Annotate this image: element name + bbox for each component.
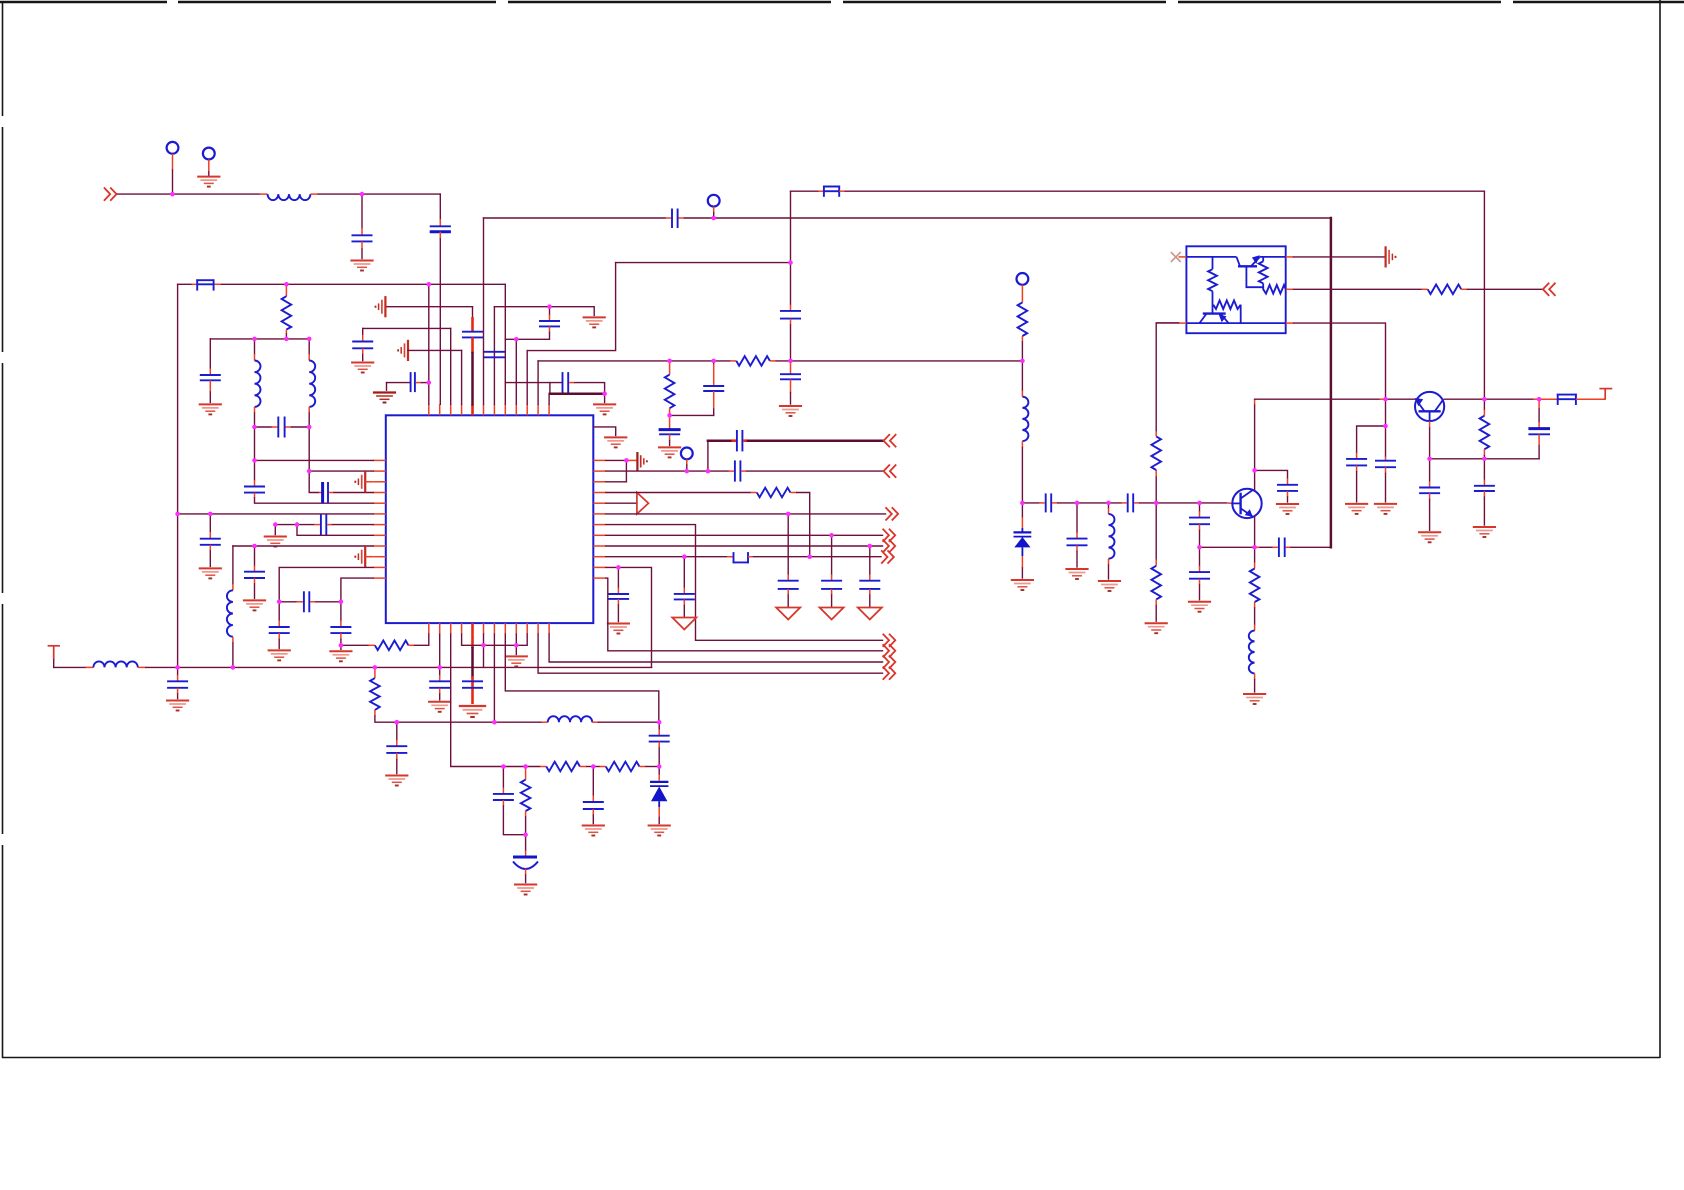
- wire: y=645.3 resistor row to pin1 bottom: [341, 644, 369, 646]
- wire: x=1156.2 upper chain to box: [1155, 476, 1157, 503]
- off-page chevron line3: [883, 655, 896, 668]
- capacitor C25 series at y=382.6: [562, 372, 564, 394]
- wire: bus y=667.4: [138, 666, 146, 668]
- wire: pin9 vertical to ground: [515, 634, 517, 654]
- wire: pin L6 line y=513.9: [178, 513, 374, 515]
- node: y218/J3: [711, 216, 716, 221]
- node: y399/x1385: [1383, 397, 1388, 402]
- U2 internals: resistor Rc vertical left: [1212, 257, 1214, 269]
- wire: y=382.6 line pin8 to gnd chain: [505, 382, 561, 384]
- wire: pin R1 to analog ground: [606, 459, 627, 461]
- U2 internals: resistor Ra vertical: [1259, 261, 1268, 283]
- jumper J5 on y=556.7: [727, 556, 733, 558]
- wire: y=360.9 supply rail: [538, 360, 730, 362]
- off-page chevron input y=471.1: [884, 465, 897, 478]
- ground below pin9: [505, 656, 528, 666]
- antenna terminal T2 right: [1576, 398, 1605, 400]
- capacitor C8 series at y=524.6: [320, 514, 322, 535]
- wire: pin L8 jog from x=297: [297, 525, 373, 536]
- capacitor C42 chain at x=1199.5 below: [1199, 547, 1201, 566]
- U2 pin stubs: [1179, 257, 1294, 323]
- node: row339/L3: [307, 337, 312, 342]
- node: row339/L2: [252, 337, 257, 342]
- wire: U2 pin2L corner to x=1156.2: [1156, 322, 1178, 324]
- capacitor C6 series at y=492.5: [319, 492, 322, 494]
- wire: pin L1 line y=460.4: [255, 459, 374, 461]
- node: row427/L2: [252, 425, 257, 430]
- ground below L8: [1098, 581, 1121, 591]
- node: y458/Q3: [1427, 457, 1432, 462]
- resistor R6 at y=766.5: [606, 762, 640, 772]
- testpoint connector J4 circle: [681, 448, 693, 460]
- node: y834/R7: [523, 832, 528, 837]
- wire: y=191.2 line: [791, 190, 819, 192]
- node: y399/x1539: [1537, 397, 1542, 402]
- capacitor C30 series at y=471.1: [729, 470, 734, 472]
- wire: pin L7 line y=524.6: [275, 524, 314, 526]
- capacitor C10 series at y=601.8: [303, 591, 305, 612]
- wire: pin R11 chain: [606, 567, 652, 667]
- capacitor C5 at x=254.5: [244, 486, 265, 488]
- wire: LO line y=502.9: [1022, 502, 1039, 504]
- off-page chevron line1: [883, 634, 896, 647]
- node: R1 gnd jog: [624, 458, 629, 463]
- ground below C40: [1065, 569, 1088, 579]
- ground below C29: [779, 406, 802, 416]
- capacitor C22 on pin5: [462, 331, 483, 333]
- inductor L5 on bus: [93, 661, 137, 667]
- capacitor C19 chain at x=593.3: [592, 767, 594, 796]
- sheet frame bottom border: [2, 1057, 1660, 1059]
- wire: pin L9 line y=546: [233, 545, 373, 547]
- analog ground AGND6: [1386, 246, 1396, 267]
- transistor Q2: [1232, 489, 1261, 518]
- wire: J4 stem: [686, 459, 688, 465]
- wire: y=328.4 line to pin3: [363, 327, 451, 329]
- node: y393 gnd: [602, 391, 607, 396]
- capacitor C21 chain at x=362.7: [362, 328, 364, 335]
- ground below C3: [199, 404, 222, 414]
- inductor L2 vertical at x=254.5: [254, 339, 256, 354]
- wire: thick y=440.7 line: [707, 441, 709, 471]
- node: y766/R7: [523, 764, 528, 769]
- antenna terminal T1 left: [48, 646, 60, 660]
- capacitor C1 chain at x=362: [361, 194, 363, 228]
- wire: pin R10 line y=556.7: [606, 556, 727, 558]
- ground at IC top-right exit: [593, 427, 615, 436]
- wire: pin7 vertical: [493, 307, 495, 405]
- wire: pin12 bottom to chevron line3: [549, 634, 882, 662]
- ground below C44: [1276, 504, 1299, 514]
- wire: pin R12 to chevron line2: [606, 578, 883, 651]
- resistor R8 on rail: [736, 356, 770, 366]
- wire: y=218 line: [484, 217, 666, 219]
- node: Q2 collector: [1252, 468, 1257, 473]
- off-page chevron input y=289.3: [1543, 283, 1556, 296]
- U2 internals: resistor Rd horizontal: [1213, 300, 1240, 309]
- capacitor C12 chain at x=340.9: [340, 602, 342, 621]
- SECTION: junction dots: [170, 192, 1541, 837]
- wire: pin R4 resistor line: [606, 492, 751, 494]
- U2 internals: transistor T2: [1186, 314, 1285, 324]
- wire: pin12 top stub to thick line: [548, 394, 550, 405]
- node: R2 line/J4: [685, 469, 690, 474]
- wire: y=470.4 to cap chain: [1255, 470, 1288, 478]
- U2 box: [1186, 246, 1285, 333]
- capacitor C51 at x=713.7: [713, 361, 715, 364]
- node: bus/x177: [175, 665, 180, 670]
- wire: pin R1/R3 link vertical: [625, 460, 627, 481]
- wire: thick stub y=393.7: [549, 383, 551, 394]
- resistor R3 horizontal at y=645.3: [375, 641, 409, 651]
- testpoint connector J2 circle: [203, 148, 215, 160]
- node: rail361 end: [1020, 359, 1025, 364]
- testpoint connector J6 circle: [1017, 273, 1029, 285]
- polarized capacitor C18 at x=525.6: [525, 835, 527, 851]
- IC U1 right pin stubs: [593, 460, 606, 578]
- inductor L3 vertical at x=309.2: [308, 339, 310, 354]
- ground below C45: [1418, 532, 1441, 542]
- node: y382/pin1: [427, 380, 432, 385]
- resistor R13 Q2 emitter bias: [1254, 547, 1256, 562]
- node: row339/R2: [284, 337, 289, 342]
- wire: AGND rail y=306.7 right segment: [494, 307, 594, 316]
- fuse F3 at y=399.2: [1557, 394, 1577, 405]
- ground below C14: [385, 776, 408, 786]
- triangle ground below C32: [776, 608, 800, 620]
- node: rail361/x669: [667, 359, 672, 364]
- wire: pin11 top vertical: [537, 361, 539, 404]
- fuse F1 on rail: [196, 279, 214, 290]
- capacitor C33 chain at x=831.6: [831, 535, 833, 574]
- wire: y=339.3 link row pins8/9: [505, 333, 549, 340]
- testpoint connector J3 circle: [708, 195, 720, 207]
- inductor L4 vertical at x=232.9: [232, 546, 234, 584]
- resistor R9h at y=492.5: [757, 488, 791, 498]
- ground below C46: [1473, 527, 1496, 537]
- capacitor C50 at x=669.6: [669, 415, 671, 429]
- capacitor C11 chain at x=279.2: [278, 602, 280, 621]
- ground below J2: [197, 177, 220, 187]
- capacitor C23 on pin7: [484, 351, 505, 353]
- node: L7 gnd tap: [273, 522, 278, 527]
- inductor L7 at x=1022.4: [1021, 361, 1023, 391]
- wire: input line after L1: [318, 193, 440, 195]
- node: bus/L4: [231, 665, 236, 670]
- capacitor C41 chain at x=1199.5: [1199, 503, 1201, 511]
- wire: J1 stem: [172, 154, 174, 170]
- analog ground AGND5: [637, 452, 647, 471]
- wire: y=262.6 link: [616, 262, 791, 264]
- triangle ground below C34: [858, 608, 882, 620]
- triangle ground below C35: [672, 618, 696, 630]
- node: LO/x1022: [1020, 501, 1025, 506]
- wire: J3 stem: [713, 207, 715, 213]
- wire: pin4 vertical: [461, 350, 463, 404]
- IC U1 left pin stubs: [373, 460, 386, 578]
- wire: pin3 vertical to y=766.5 row: [451, 634, 504, 766]
- capacitor C20 series at x=659.2 vertical: [658, 722, 660, 729]
- wire: pin R2 line y=471.1: [606, 470, 729, 472]
- resistor R2 at x=286.4: [285, 284, 287, 296]
- wire: pin8 top vertical x=505.3: [504, 284, 506, 404]
- wire: pin5 thick chain: [472, 307, 474, 317]
- IC U1 body: [386, 415, 594, 623]
- capacitor C29 at x=790.5: [780, 373, 801, 375]
- capacitor C26 series at y=382.6 left: [386, 383, 388, 391]
- transistor Q3: [1415, 392, 1444, 421]
- capacitor C43 series at y=547.3: [1255, 546, 1260, 548]
- sheet frame left border: [2, 2, 4, 1058]
- node: row645/C12: [339, 643, 344, 648]
- resistor R11v at x=1156.2: [1151, 436, 1161, 470]
- off-page chevron y=556.7: [881, 550, 894, 563]
- wire: y=458.8 link: [1430, 458, 1540, 460]
- ground below C50: [658, 447, 681, 457]
- ground below junction x=275.3: [274, 525, 276, 535]
- capacitor C13 chain at x=177.6 below bus: [177, 667, 179, 675]
- wire: y=766.5 row left: [503, 766, 540, 768]
- ground below D1: [648, 826, 671, 836]
- inductor L6 at y=722.2: [548, 716, 592, 722]
- capacitor C38 series at y=502.9: [1045, 493, 1047, 512]
- node: row645/pin6: [481, 643, 486, 648]
- ground below C18: [514, 885, 537, 895]
- node: R8 line/C33: [829, 533, 834, 538]
- capacitor C39 series at y=502.9: [1121, 502, 1127, 504]
- wire: pin7 long vertical: [493, 634, 495, 722]
- node: y547/Q2e: [1252, 545, 1257, 550]
- node: L7/L8 jog: [295, 522, 300, 527]
- inductor L9 at x=1254.6: [1254, 625, 1256, 631]
- wire: R4 to junction x=396.8: [375, 716, 397, 722]
- resistor R16 at x=669.6: [669, 361, 671, 375]
- capacitor C44 at x=1287.5: [1287, 479, 1289, 485]
- capacitor C36 chain at x=618.4: [617, 567, 619, 587]
- wire: power rail y=284.3: [178, 283, 192, 285]
- node: AGND rail/C24: [547, 304, 552, 309]
- node: y722/x396: [395, 720, 400, 725]
- wire: pin R8 line y=535.3: [606, 534, 883, 536]
- node: rail361/x790: [788, 359, 793, 364]
- ground below C36: [607, 624, 630, 634]
- ground below C15: [428, 702, 451, 712]
- node: bus/R4: [373, 665, 378, 670]
- sheet frame right border: [1659, 0, 1661, 1058]
- ground below C42: [1188, 602, 1211, 612]
- off-page chevron y=535.3: [883, 529, 896, 542]
- wire: left long vertical x=177.6: [177, 284, 179, 667]
- ground below L9: [1243, 694, 1266, 704]
- capacitor C47 chain at x=1539.1: [1538, 399, 1540, 409]
- wire: x=309.2 chain to L4: [309, 427, 319, 493]
- off-page chevron y=513.9: [886, 507, 899, 520]
- wire: Q2 collector up: [1254, 470, 1256, 490]
- wire: main input line y=194: [118, 193, 260, 195]
- wire: pin6 vertical to bus: [483, 634, 485, 667]
- dark ground below x=384.5: [373, 393, 396, 403]
- node: R10 line/R9h: [807, 554, 812, 559]
- pin stub inductor L1 right: [310, 193, 318, 195]
- node: R10 line/C35: [682, 554, 687, 559]
- varactor diode D1 at x=659.2: [658, 767, 660, 775]
- triangle ground below C33: [820, 608, 844, 620]
- node: L2 line: [307, 469, 312, 474]
- wire: y=350.4 line to pin4: [408, 349, 462, 351]
- wire: y=427 row left: [255, 426, 272, 428]
- wire: x=549.5 cap chain from AGND rail: [549, 307, 551, 315]
- node: y547/C42: [1197, 545, 1202, 550]
- fuse F2 on y=191.2: [823, 186, 840, 197]
- capacitor C4 series at y=427: [277, 417, 279, 438]
- node: row427/L3: [307, 425, 312, 430]
- capacitor C40 chain at x=1077: [1076, 503, 1078, 532]
- capacitor C35 chain at x=684.3: [683, 557, 685, 588]
- wire: pin L2 line y=471.1: [309, 470, 373, 472]
- capacitor C46 at x=1484.4: [1483, 459, 1485, 480]
- node: L6 left: [175, 512, 180, 517]
- node: LO/C40: [1075, 501, 1080, 506]
- wire: x=790.5 chain: [790, 191, 792, 304]
- resistor R14 at x=1484.4: [1483, 399, 1485, 409]
- IC U1 bottom pin stubs: [429, 623, 549, 634]
- testpoint connector J1 circle: [167, 142, 179, 154]
- node: y766/D1: [657, 764, 662, 769]
- node: input/C1: [360, 192, 365, 197]
- node: R11 line/C36: [616, 565, 621, 570]
- wire: pin R6 line y=513.9: [606, 513, 886, 515]
- wire: y=722.2 inductor row: [397, 721, 542, 723]
- ground below C9: [243, 600, 266, 610]
- node: input/J1: [170, 192, 175, 197]
- wire: pin L12 line y=578.1: [341, 578, 373, 602]
- node: y722/pin7: [492, 720, 497, 725]
- wire: pin9 vertical: [515, 339, 517, 404]
- capacitor C15 chain at x=439.7 (pin2 bottom): [439, 634, 441, 675]
- wire: pin1 vertical: [428, 284, 430, 404]
- node: y766/C19: [591, 764, 596, 769]
- resistor R4 below bus at x=374.9: [374, 667, 376, 678]
- wire: pin8 bottom hook: [505, 634, 659, 722]
- ground below C11: [268, 650, 291, 660]
- capacitor C2 on pin2 top chain: [439, 194, 441, 219]
- node: row601/C12: [339, 600, 344, 605]
- node: y766/C17: [501, 764, 506, 769]
- wire: pin6 top vertical: [483, 218, 485, 404]
- IC U1 top pin stubs: [429, 404, 549, 415]
- off-page chevron line2: [883, 644, 896, 657]
- ground at right end of AGND rail: [583, 317, 606, 327]
- U2 internals: node link: [1246, 266, 1263, 287]
- capacitor C45 below Q3: [1429, 459, 1431, 481]
- off-page triangle connector at pin R5: [606, 502, 637, 504]
- wire: J2 stem to ground: [208, 159, 210, 172]
- off-page chevron input y=440.7: [884, 434, 897, 447]
- node: LO/C41: [1197, 501, 1202, 506]
- resistor R12v at x=1156.2 below: [1155, 503, 1157, 560]
- off-page chevron y=546: [883, 539, 896, 552]
- wire: y=415.4 link: [670, 414, 714, 416]
- wire: y=338.9 row: [210, 338, 309, 340]
- wire: pin R3 jog: [606, 481, 627, 483]
- analog ground AGND3 left end: [376, 296, 386, 317]
- capacitor C32 chain at x=788.2: [787, 514, 789, 575]
- node: rail/R2: [284, 282, 289, 287]
- node: x790/y262: [788, 260, 793, 265]
- capacitor C16 on pin5 run: [462, 680, 483, 682]
- capacitor C14 chain at x=396.8: [396, 722, 398, 740]
- ground below C7: [199, 568, 222, 578]
- node: row339/pin9: [514, 337, 519, 342]
- capacitor C49 at x=1385.5: [1385, 457, 1387, 461]
- node: rail361/x713: [711, 359, 716, 364]
- wire: U2 pin3R to x=1385.5: [1294, 323, 1386, 399]
- capacitor C27 series at y=218: [671, 209, 673, 229]
- wire: pin2 vertical down to IC: [439, 239, 441, 404]
- ground below R12v: [1145, 623, 1168, 633]
- wire: U2 pin1R to analog ground: [1294, 256, 1385, 258]
- capacitor C3 chain at x=210.3: [209, 339, 211, 369]
- wire: pin L5 connection: [255, 498, 374, 503]
- wire: y=601.8 row: [279, 601, 296, 603]
- wire: x=615.6 vertical: [527, 263, 615, 351]
- wire: pin10 vertical: [526, 351, 528, 405]
- wire: y=547.3 emitter link: [1200, 546, 1255, 548]
- wire: pin R7 to chevron line1: [606, 525, 883, 641]
- node: bus/pin2: [437, 665, 442, 670]
- analog ground AGND4 at y=350.4: [398, 340, 408, 361]
- node: LO/x1156: [1154, 501, 1159, 506]
- resistor R10v at x=1022.4: [1021, 285, 1023, 303]
- analog ground AGND1 at pin L3: [355, 471, 365, 492]
- ground below x=604.6: [593, 404, 616, 414]
- inductor L1 (series, 4 humps): [268, 194, 311, 200]
- capacitor C28 at x=790.5: [780, 310, 801, 312]
- wire: Q2 emitter down: [1254, 517, 1256, 548]
- varactor diode D2 at x=1022.4: [1021, 503, 1023, 517]
- wire: AGND rail y=306.7 left segment: [385, 306, 472, 308]
- off-page connector input chevron: [104, 188, 117, 201]
- wire: bus y=667.4 left of L5: [53, 660, 55, 667]
- node: y722/x659: [657, 720, 662, 725]
- ground below C1: [350, 261, 373, 271]
- node: R6 line/C32: [786, 512, 791, 517]
- wire: y=645.3 link row pins 4/6/9/10: [462, 634, 528, 645]
- wire: pin L11 line y=567.4: [279, 567, 373, 601]
- U2 internals: resistor Rb horizontal to pin: [1263, 285, 1286, 294]
- ground below C49: [1374, 504, 1397, 514]
- node: L1 line: [252, 458, 257, 463]
- inductor L8 at x=1108.5: [1108, 503, 1110, 508]
- ground below C48: [1345, 504, 1368, 514]
- capacitor C7 chain at x=210.3 (second): [209, 514, 211, 532]
- pin stub inductor L1 left: [260, 193, 268, 195]
- sheet frame top border: [0, 1, 1684, 4]
- node: row601/C11: [277, 600, 282, 605]
- resistor R7 vertical at x=525.6: [525, 767, 527, 780]
- wire: pin R9 line y=546: [606, 545, 883, 547]
- ground below C19: [582, 826, 605, 836]
- capacitor C48 at x=1356.6: [1356, 453, 1358, 459]
- node: x1385/y426: [1383, 424, 1388, 429]
- U2 internals: transistor T1: [1186, 257, 1285, 266]
- U2 no-connect X: [1171, 252, 1181, 262]
- capacitor C34 chain at x=869.8: [869, 546, 871, 575]
- capacitor C24 at x=549.5: [539, 320, 560, 322]
- node: rail/pin1: [427, 282, 432, 287]
- wire: x=1254.6 collector to y=399.2: [1254, 405, 1256, 471]
- capacitor C17 chain at x=503.4: [502, 767, 504, 788]
